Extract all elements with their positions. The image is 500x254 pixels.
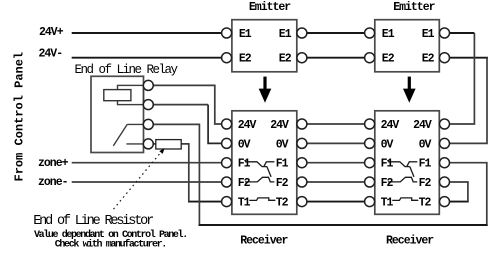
svg-text:E2: E2 (422, 53, 435, 66)
svg-text:F2: F2 (419, 177, 432, 190)
svg-text:F2: F2 (238, 177, 251, 190)
svg-text:E1: E1 (422, 28, 435, 41)
svg-text:E1: E1 (382, 28, 395, 41)
svg-text:24V: 24V (270, 119, 289, 132)
svg-text:End of Line Relay: End of Line Relay (75, 63, 179, 77)
svg-text:F1: F1 (238, 158, 251, 171)
svg-text:F1: F1 (419, 158, 432, 171)
svg-text:24V: 24V (238, 119, 257, 132)
svg-text:0V: 0V (276, 138, 289, 151)
svg-text:Receiver: Receiver (386, 235, 434, 248)
svg-text:F2: F2 (276, 177, 289, 190)
svg-text:E1: E1 (239, 28, 252, 41)
svg-text:From Control Panel: From Control Panel (13, 52, 27, 182)
svg-text:zone-: zone- (38, 176, 68, 189)
svg-text:End of Line Resistor: End of Line Resistor (33, 214, 153, 229)
svg-text:T2: T2 (419, 197, 432, 210)
svg-text:24V-: 24V- (39, 48, 63, 61)
svg-text:0V: 0V (238, 138, 251, 151)
svg-text:F1: F1 (381, 158, 394, 171)
svg-text:24V+: 24V+ (39, 26, 64, 39)
svg-text:F2: F2 (381, 177, 394, 190)
svg-text:0V: 0V (419, 138, 432, 151)
svg-text:24V: 24V (413, 119, 432, 132)
svg-text:E2: E2 (239, 53, 252, 66)
svg-text:Emitter: Emitter (393, 1, 435, 14)
svg-text:0V: 0V (381, 138, 394, 151)
svg-text:E2: E2 (279, 53, 292, 66)
svg-text:T1: T1 (238, 197, 251, 210)
svg-text:Check with manufacturer.: Check with manufacturer. (55, 239, 166, 251)
svg-text:E2: E2 (382, 53, 395, 66)
svg-text:T1: T1 (381, 197, 394, 210)
svg-text:F1: F1 (276, 158, 289, 171)
svg-text:zone+: zone+ (38, 157, 69, 170)
svg-text:24V: 24V (381, 119, 400, 132)
svg-text:E1: E1 (279, 28, 292, 41)
svg-text:T2: T2 (276, 197, 289, 210)
svg-text:Emitter: Emitter (249, 1, 291, 14)
svg-text:Receiver: Receiver (240, 235, 288, 248)
